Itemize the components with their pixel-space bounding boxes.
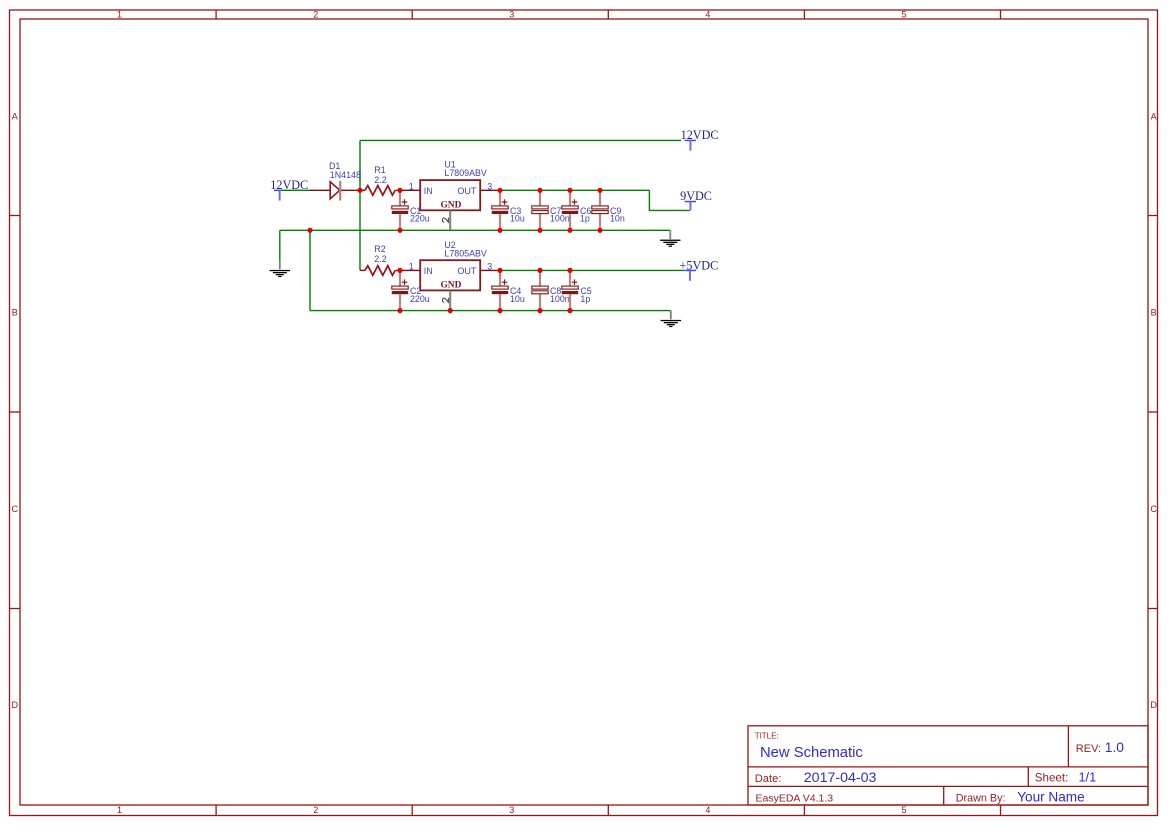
junction C1 bottom node: [397, 228, 402, 233]
junction C4 bottom node: [497, 308, 502, 313]
wire: 9VDC jog down to port: [649, 190, 690, 210]
junction GND rail1 corner node: [307, 228, 312, 233]
title block: [748, 726, 1148, 805]
frame column labels top: [117, 9, 907, 19]
junction C8 top node: [537, 268, 542, 273]
wire: D1 anode pin lead: [310, 189, 330, 191]
svg-text:2.2: 2.2: [374, 254, 386, 264]
svg-text:3: 3: [487, 262, 492, 272]
junction U1-OUT/C3 node: [497, 188, 502, 193]
C1 polarity mark +: [402, 199, 408, 205]
regulator U2 L7805ABV: [409, 240, 492, 310]
svg-text:2.2: 2.2: [374, 175, 386, 185]
svg-text:OUT: OUT: [457, 186, 477, 196]
svg-text:1p: 1p: [580, 294, 590, 304]
capacitor C8: [532, 286, 570, 304]
capacitor C1 leads: [399, 191, 401, 230]
svg-text:3: 3: [509, 805, 514, 815]
svg-text:C: C: [11, 504, 18, 514]
svg-text:TITLE:: TITLE:: [755, 731, 779, 740]
junction D1/R1/12VDC feed node: [357, 188, 362, 193]
svg-text:Drawn By:: Drawn By:: [956, 792, 1006, 804]
C6 polarity mark +: [572, 199, 578, 205]
capacitor C6 leads: [569, 191, 571, 230]
svg-text:Sheet:: Sheet:: [1035, 771, 1069, 784]
ground (left, GND net): [270, 261, 290, 278]
svg-text:1/1: 1/1: [1079, 770, 1097, 784]
junction C5 bottom node: [567, 308, 572, 313]
junction R2/C2/U2-IN node: [397, 268, 402, 273]
capacitor C3: [492, 199, 525, 223]
capacitor C9 leads: [599, 191, 601, 230]
junction U2-OUT/C4 node: [497, 268, 502, 273]
svg-text:L7805ABV: L7805ABV: [444, 249, 487, 259]
svg-text:3: 3: [487, 181, 492, 191]
capacitor C9: [592, 206, 625, 224]
svg-text:4: 4: [705, 805, 710, 815]
svg-text:100n: 100n: [550, 294, 570, 304]
junction C5 top node: [567, 268, 572, 273]
svg-text:2: 2: [313, 9, 318, 19]
capacitor C3 leads: [499, 191, 501, 230]
svg-text:10u: 10u: [510, 214, 525, 224]
wire: drop to left ground: [279, 230, 281, 260]
C3 polarity mark +: [502, 199, 508, 205]
wire: 12VDC input to D1 anode: [280, 189, 310, 191]
svg-text:IN: IN: [424, 266, 433, 276]
junction C6 top node: [567, 188, 572, 193]
ground (row2 right, GND net): [661, 311, 681, 328]
svg-text:New Schematic: New Schematic: [760, 745, 863, 761]
svg-text:2: 2: [313, 805, 318, 815]
svg-text:A: A: [12, 111, 18, 121]
svg-text:Your Name: Your Name: [1017, 790, 1085, 805]
wire: GND rail row1: [280, 229, 671, 231]
wire overlay on label: [359, 170, 361, 182]
wire: U1 pin3 lead: [480, 189, 500, 191]
C2 polarity mark +: [402, 279, 408, 285]
wire: R2 left lead: [360, 269, 365, 271]
svg-text:C: C: [1150, 504, 1157, 514]
junction C9 top node: [597, 188, 602, 193]
wire: top 12VDC rail: [360, 139, 681, 141]
svg-text:220u: 220u: [410, 214, 430, 224]
capacitor C2: [392, 279, 430, 303]
net flag 12VDC (top right): [681, 128, 719, 151]
svg-text:L7809ABV: L7809ABV: [444, 168, 487, 178]
svg-text:1: 1: [409, 262, 414, 272]
svg-text:REV:: REV:: [1076, 743, 1101, 755]
U1 pin number 2 (rotated): [443, 218, 449, 223]
junction C9 bottom node: [597, 228, 602, 233]
wire: U2 OUT to +5VDC port: [500, 269, 684, 271]
capacitor C7 leads: [539, 191, 541, 230]
capacitor C8 leads: [539, 271, 541, 310]
svg-text:R1: R1: [374, 165, 385, 175]
junction C2 bottom node: [397, 308, 402, 313]
svg-text:D: D: [1150, 700, 1157, 710]
frame row labels right: [1150, 111, 1157, 709]
svg-text:3: 3: [509, 9, 514, 19]
wire: GND rail vertical link: [309, 230, 311, 310]
regulator U1 L7809ABV: [409, 159, 492, 229]
svg-text:100n: 100n: [550, 214, 570, 224]
wire: R1 left lead: [360, 189, 365, 191]
wire: U1 OUT to filter caps (9VDC net): [500, 189, 649, 191]
capacitor C5 leads: [569, 271, 571, 310]
svg-text:1: 1: [117, 9, 122, 19]
junction U2 pin2 bottom node: [448, 308, 453, 313]
ground (row1 right, GND net): [660, 230, 680, 247]
svg-text:5: 5: [901, 9, 906, 19]
svg-text:2017-04-03: 2017-04-03: [804, 770, 877, 786]
wire: vertical feed 12VDC net: [359, 140, 361, 270]
capacitor C5: [562, 279, 592, 303]
svg-text:1N4148: 1N4148: [330, 170, 361, 180]
svg-text:4: 4: [705, 9, 710, 19]
wire: R2 right lead / U2 pin1: [396, 269, 421, 271]
svg-text:1p: 1p: [580, 214, 590, 224]
svg-text:GND: GND: [441, 281, 462, 291]
svg-text:OUT: OUT: [457, 266, 477, 276]
wire: R1 right lead / U1 pin1: [396, 189, 421, 191]
svg-text:1: 1: [117, 805, 122, 815]
net flag +5VDC: [680, 258, 719, 280]
junction C6 bottom node: [567, 228, 572, 233]
svg-text:EasyEDA V4.1.3: EasyEDA V4.1.3: [756, 792, 834, 804]
capacitor C4 leads: [499, 271, 501, 310]
junction C7 bottom node: [537, 228, 542, 233]
svg-text:D: D: [11, 700, 18, 710]
resistor R2: [365, 244, 395, 275]
svg-text:1.0: 1.0: [1105, 740, 1125, 755]
wire: U2 pin3 lead: [480, 269, 500, 271]
svg-text:1: 1: [409, 181, 414, 191]
svg-text:10u: 10u: [510, 294, 525, 304]
svg-text:GND: GND: [441, 201, 462, 211]
svg-text:220u: 220u: [410, 294, 430, 304]
C5 polarity mark +: [572, 279, 578, 285]
junction C3 bottom node: [497, 228, 502, 233]
svg-text:R2: R2: [374, 244, 385, 254]
net flag 12VDC (input, left): [270, 178, 308, 201]
capacitor C6: [562, 199, 592, 223]
net flag 9VDC: [680, 189, 712, 210]
wire: D1 cathode pin lead: [341, 189, 360, 191]
svg-text:10n: 10n: [610, 214, 625, 224]
frame column labels bottom: [117, 805, 907, 815]
wire: GND rail row2: [310, 310, 671, 312]
svg-text:Date:: Date:: [755, 773, 782, 785]
junction R1/C1/U1-IN node: [397, 188, 402, 193]
junction C7 top node: [537, 188, 542, 193]
U2 pin 2 GND lead: [449, 290, 451, 309]
svg-text:5: 5: [901, 805, 906, 815]
capacitor C1: [392, 199, 430, 223]
U2 pin number 2 (rotated): [443, 298, 449, 303]
C4 polarity mark +: [502, 279, 508, 285]
svg-text:IN: IN: [424, 186, 433, 196]
diode D1 1N4148: [329, 161, 361, 201]
capacitor C7: [532, 206, 570, 224]
junction C8 bottom node: [537, 308, 542, 313]
resistor R1: [365, 165, 395, 195]
frame row labels left: [11, 111, 18, 709]
svg-text:B: B: [1151, 308, 1157, 318]
capacitor C4: [492, 279, 525, 303]
svg-text:B: B: [12, 308, 18, 318]
svg-text:A: A: [1151, 111, 1157, 121]
U1 pin 2 GND lead: [449, 210, 451, 229]
D1 cathode bar: [339, 181, 341, 201]
capacitor C2 leads: [399, 271, 401, 310]
